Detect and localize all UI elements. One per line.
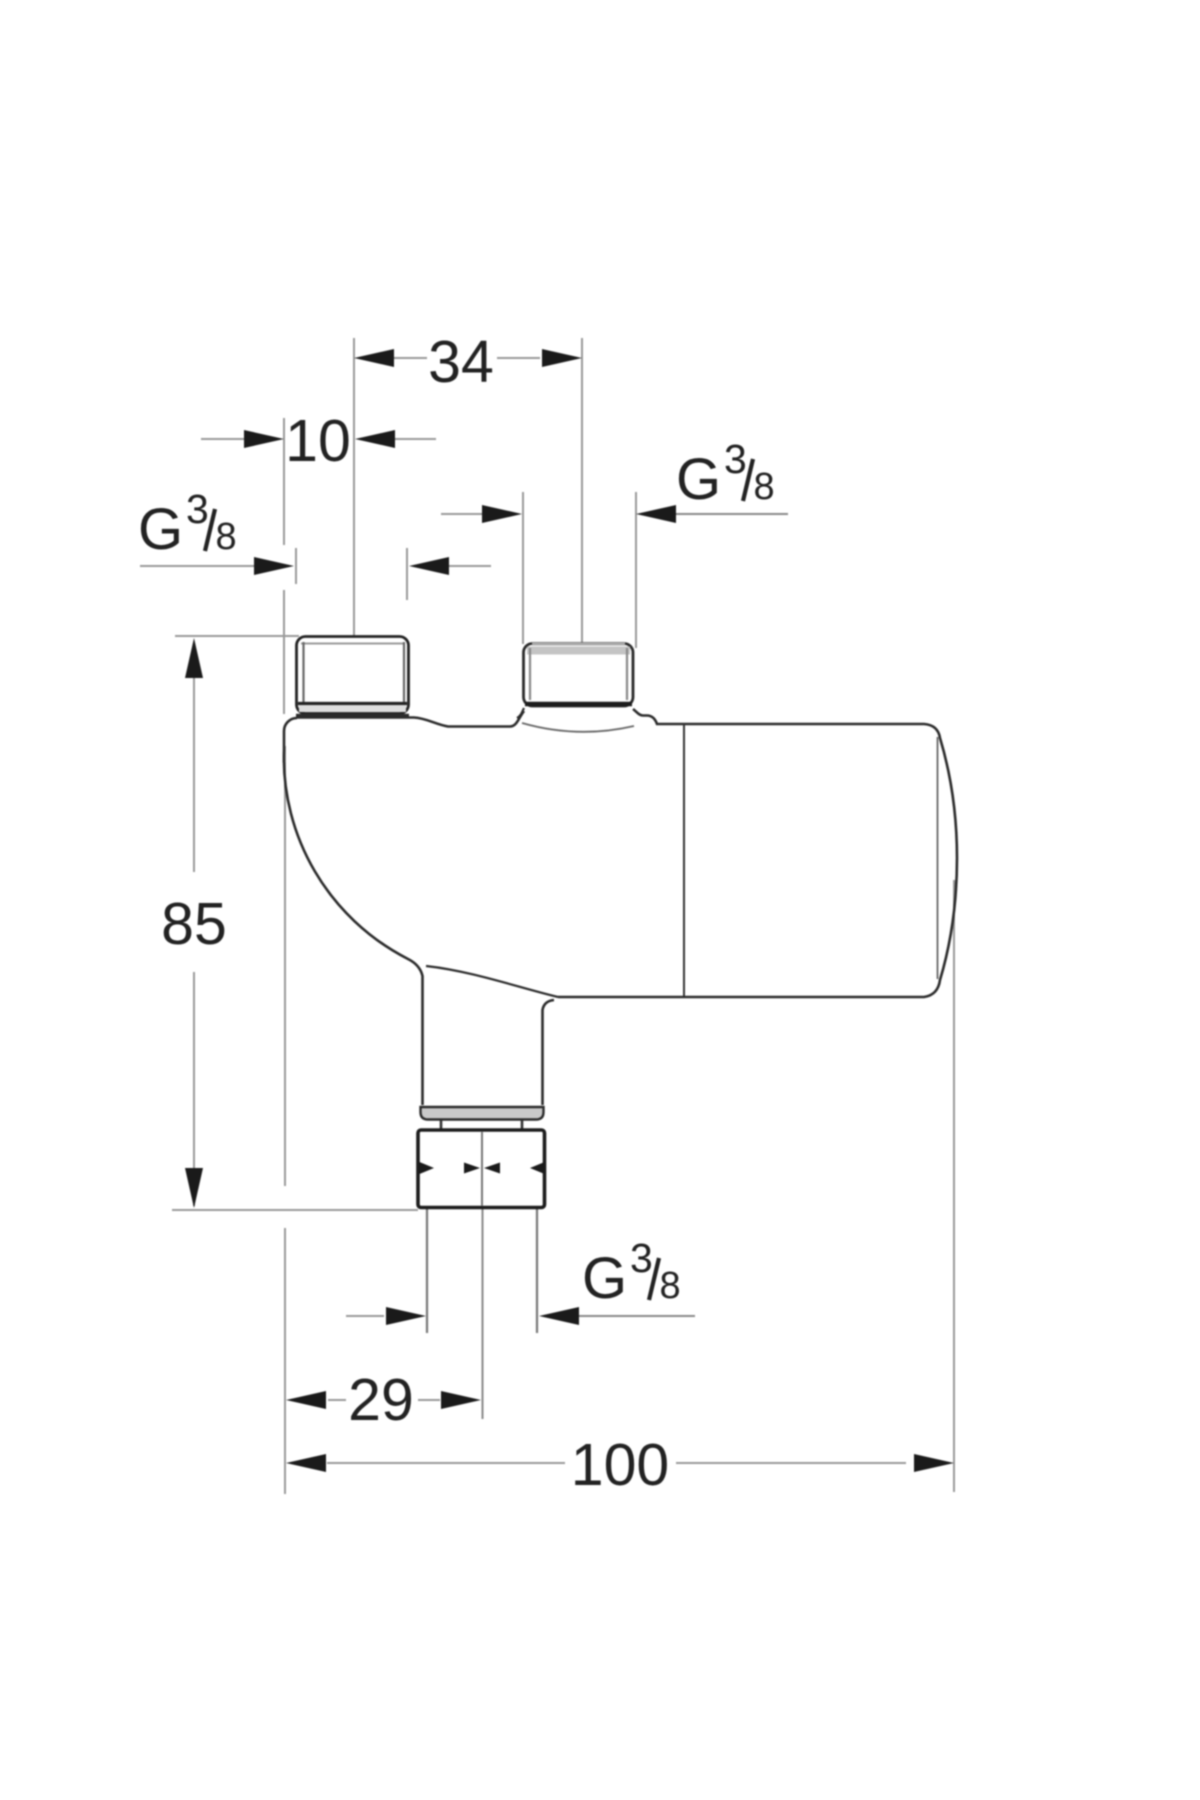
- fitting2 body (threaded connector right): [524, 644, 634, 707]
- wire: extension line fitting1 right x=407: [406, 548, 408, 600]
- wire: extension line 85-bottom y=1210: [172, 1209, 418, 1211]
- wire: outlet pipe right edge x=537: [536, 1209, 538, 1333]
- svg-text:G: G: [582, 1246, 627, 1311]
- label G3/8 top-right: [676, 436, 775, 512]
- svg-text:G: G: [676, 447, 721, 512]
- body outline: leg right edge: [543, 1000, 555, 1105]
- hex nut chamfer mark center-right: [484, 1163, 500, 1174]
- hex nut chamfer mark center-left: [464, 1163, 480, 1174]
- svg-text:8: 8: [216, 516, 237, 558]
- svg-text:3: 3: [630, 1235, 653, 1281]
- wire: extension line body-left x=284 upper: [283, 418, 285, 545]
- dimension 85 arrow up: [185, 638, 203, 678]
- dimension 85 arrow down: [185, 1168, 203, 1208]
- body outline: leg top-right S curve: [426, 966, 558, 997]
- fitting2 inner wall right: [626, 648, 628, 700]
- wire: extension line knob-right x=954: [953, 880, 955, 1492]
- fitting2 inner wall left: [529, 648, 531, 700]
- svg-text:3: 3: [724, 436, 747, 482]
- hex nut chamfer mark left edge: [420, 1162, 435, 1174]
- dimension 100 arrow right: [914, 1454, 954, 1472]
- label G3/8 left leader arrow: [254, 557, 294, 575]
- fitting2 top gray stripe: [527, 647, 630, 655]
- hex nut: [418, 1130, 545, 1208]
- wire: extension line fitting1 centerline x=354: [353, 338, 355, 636]
- label G3/8 left leader: [140, 565, 255, 567]
- wire: extension line fitting2 centerline x=582: [581, 338, 583, 644]
- svg-text:100: 100: [571, 1432, 669, 1498]
- svg-text:34: 34: [428, 329, 494, 395]
- svg-text:G: G: [138, 497, 183, 562]
- dimension 10 tails: [201, 438, 244, 440]
- hex nut chamfer mark right edge: [530, 1162, 545, 1174]
- wire: extension line 85-top y=636: [175, 635, 299, 637]
- svg-text:8: 8: [660, 1265, 681, 1307]
- thread stub right: [521, 1120, 524, 1130]
- wire: outlet centerline x=482.5 below nut: [482, 1209, 484, 1419]
- svg-text:29: 29: [348, 1367, 414, 1433]
- body outline: top edge between fittings: [296, 711, 524, 727]
- thread stub left: [440, 1120, 443, 1130]
- fitting2 OD arrow left: [441, 513, 482, 515]
- svg-text:85: 85: [161, 891, 227, 957]
- dimension 34 line segments: [394, 357, 427, 359]
- label G3/8 bottom arrows: [346, 1315, 384, 1317]
- body outline: left side and big curve: [284, 718, 423, 1105]
- wire: extension line fitting2 right x=636: [635, 492, 637, 648]
- wire: extension line body-left lower x=285: [284, 746, 286, 1186]
- fitting1 inner top line: [301, 643, 404, 645]
- wire: extension line fitting2 left x=523: [522, 492, 524, 644]
- label G3/8 bottom: [582, 1235, 681, 1311]
- dimension 29 arrow right: [441, 1391, 481, 1409]
- fitting1 body (threaded connector left): [297, 637, 409, 714]
- fitting1 bottom line: [298, 702, 407, 705]
- dimension 29 arrow left: [286, 1391, 326, 1409]
- dimension 100 arrow left: [286, 1454, 326, 1472]
- fitting1 OD arrow right: [409, 557, 449, 575]
- body outline: step, knob top, end cap, bottom: [558, 709, 957, 997]
- dimension 85 line segments: [193, 642, 195, 872]
- label G3/8 left: [138, 486, 237, 562]
- fitting1 inner wall left: [302, 642, 304, 702]
- dimension 29 line stubs: [328, 1399, 346, 1401]
- knob separator line x=684: [683, 724, 685, 996]
- svg-text:8: 8: [754, 466, 775, 508]
- leg bottom band: [421, 1107, 544, 1120]
- hex nut center line: [481, 1132, 483, 1206]
- fitting2 top edge gray: [532, 643, 625, 646]
- dimension 10 arrow right: [355, 430, 395, 448]
- fitting1 base gray wash: [299, 706, 406, 713]
- svg-text:10: 10: [285, 408, 351, 474]
- dimension 34 arrow right: [542, 349, 582, 367]
- dimension 10 arrow left: [244, 430, 284, 448]
- fitting2 left shoulder corner: [517, 708, 524, 718]
- svg-text:3: 3: [186, 486, 209, 532]
- fitting2 shoulder smile arc: [522, 723, 634, 732]
- knob face edge x=937.5: [937, 737, 939, 979]
- dimension 100 line segments: [327, 1462, 565, 1464]
- wire: extension line fitting1 left x=296: [295, 548, 297, 584]
- fitting2 OD arrow right with G3/8 leader tail: [636, 505, 676, 523]
- fitting1 base line: [296, 714, 409, 717]
- dimension 34 arrow left: [354, 349, 394, 367]
- fitting1 inner wall right: [403, 642, 405, 702]
- fitting2 bottom band: [525, 702, 632, 707]
- wire: outlet pipe left edge x=427.5: [426, 1209, 428, 1333]
